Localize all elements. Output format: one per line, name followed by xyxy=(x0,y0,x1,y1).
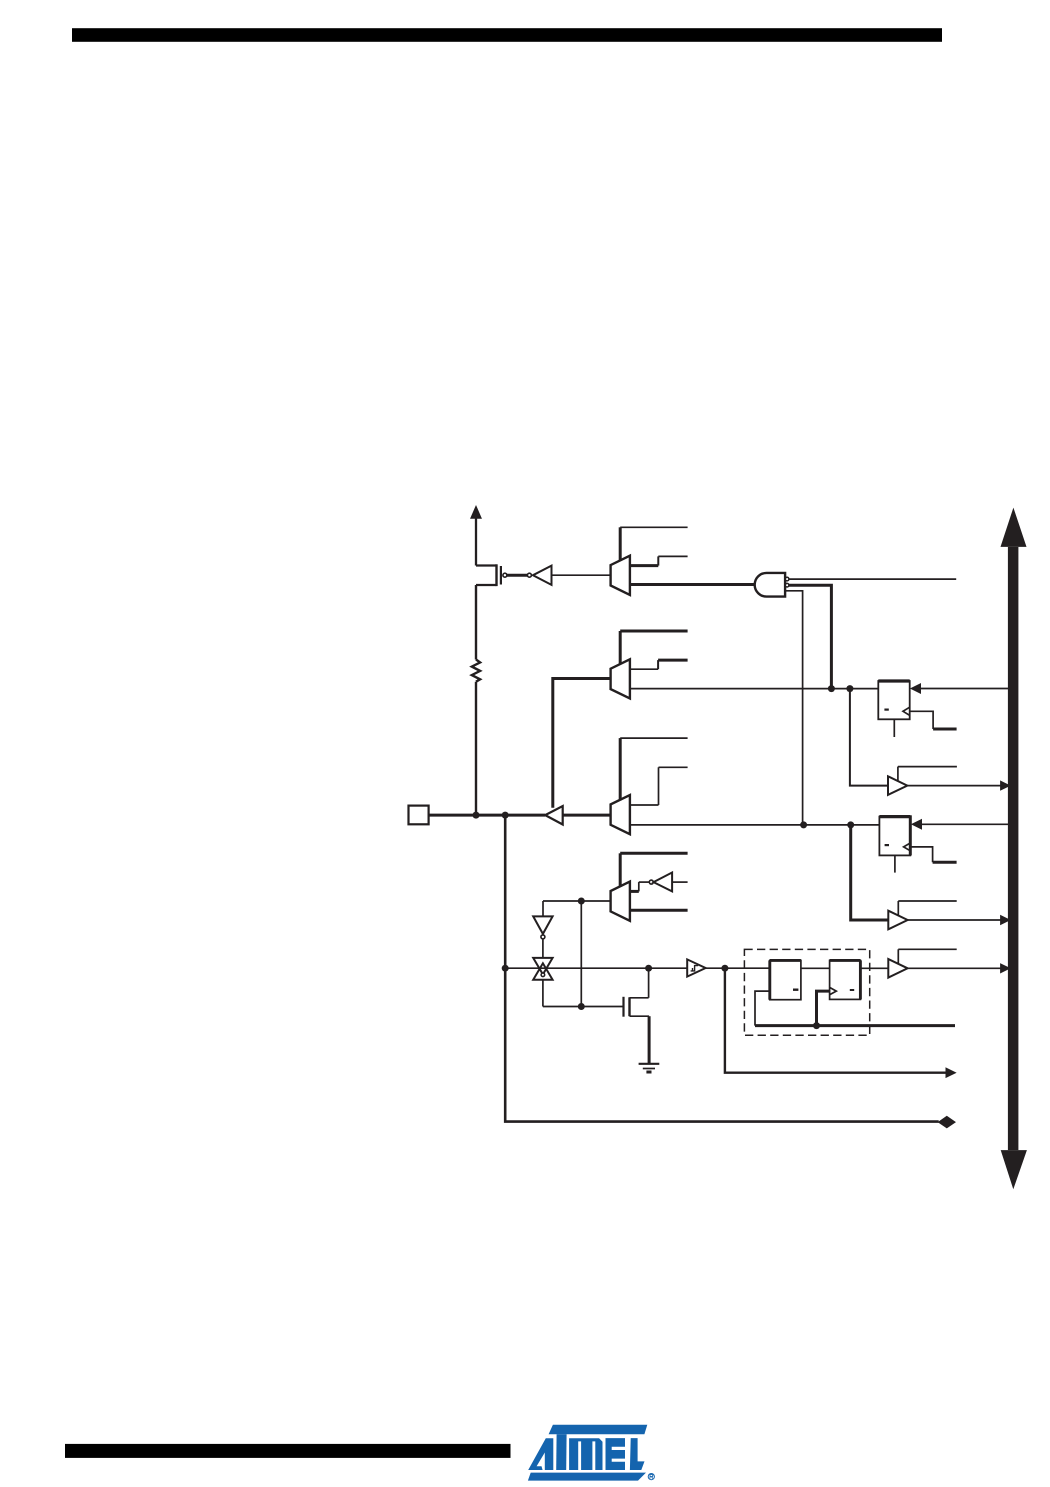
wire DIxn xyxy=(725,968,947,1072)
node pad/analog junction xyxy=(502,812,509,819)
FF2 D arrowhead xyxy=(912,820,922,829)
wire latch L1 to L2 xyxy=(801,967,830,969)
AIOxn diamond xyxy=(939,1116,956,1127)
logo letter L xyxy=(630,1438,645,1470)
logo letter A xyxy=(528,1438,553,1470)
flip-flop FF2 (PORTxn) xyxy=(879,815,910,872)
FF1 D arrowhead xyxy=(911,684,921,693)
wire mux4 input 1 xyxy=(630,882,649,891)
logo bottom bar xyxy=(528,1473,646,1481)
node mux4 output tap xyxy=(578,898,585,905)
schmitt trigger U6 xyxy=(687,959,705,976)
logo letter E xyxy=(606,1438,626,1470)
pad Pxn xyxy=(409,806,429,825)
wire PUD stub xyxy=(789,578,956,580)
mux3 select wire xyxy=(619,738,622,800)
buffer U8 (PORTxn read) xyxy=(888,901,1009,929)
wire FF1 D from bus xyxy=(920,688,1008,690)
logo letter T xyxy=(556,1434,566,1470)
wire analog line (pad to schmitt) xyxy=(505,967,687,969)
wire mux2 output (driver enable) xyxy=(553,679,611,808)
wire inverter U3 to gate xyxy=(542,939,544,958)
mux1 (pull-up enable mux) xyxy=(611,556,630,595)
wire mux3 select stub xyxy=(620,737,687,739)
wire clk I/O xyxy=(755,1024,955,1027)
transmission gate T1 xyxy=(533,958,552,980)
buffer U9 (PINxn read) xyxy=(888,949,1009,977)
node pad/pull-up junction xyxy=(473,812,480,819)
logo top bar xyxy=(549,1425,648,1434)
DIxn arrowhead xyxy=(946,1068,956,1077)
AND input bubble 2 xyxy=(785,583,789,587)
node PORTxn line taps xyxy=(800,821,807,828)
wire AND input 2 to DDxn line xyxy=(789,585,831,688)
wire VCC to resistor xyxy=(475,585,477,660)
AND gate G1 (pull-up logic) xyxy=(755,573,785,597)
latch L2 xyxy=(830,960,861,999)
mux2 select wire xyxy=(619,631,622,665)
header rule xyxy=(72,28,942,42)
latch L1 xyxy=(770,960,801,999)
AND input bubble 1 xyxy=(785,577,789,581)
DATA BUS xyxy=(1001,508,1027,1190)
wire mux2 input 1 (step) xyxy=(630,660,688,669)
node clk junction xyxy=(813,1022,820,1029)
wire mux4 output to inverter U3 xyxy=(542,901,544,916)
wire PMOS gate to inverter xyxy=(507,574,528,577)
wire schmitt to synchronizer xyxy=(706,967,770,969)
wire AIOxn xyxy=(505,815,939,1122)
inverter U4 (input enable) xyxy=(649,873,687,892)
inverter U3 (clamp control) xyxy=(533,916,552,939)
wire pad to driver xyxy=(429,814,546,817)
logo R mark xyxy=(648,1474,654,1480)
wire AND input 3 to PORTxn line xyxy=(785,591,803,825)
wire latch L2 to PIN buffer xyxy=(860,967,888,969)
wire FF2 D from bus xyxy=(921,823,1008,825)
VCC arrow xyxy=(471,506,481,565)
mux3 (PORTxn override mux) xyxy=(611,795,630,834)
ground xyxy=(639,1064,660,1072)
buffer U7 (DDxn read) xyxy=(888,767,1010,795)
wire mux3 input 2 (PORTxn Q line) xyxy=(630,824,880,826)
flip-flop FF1 (DDxn) xyxy=(878,681,909,737)
wire latch L2 clock xyxy=(817,991,830,1026)
mux2 (DDxn override mux) xyxy=(611,659,630,698)
wire mux1 select stub xyxy=(620,526,687,528)
wire resistor to pad line xyxy=(475,682,477,815)
wire mux1 input 1 (step) xyxy=(630,556,688,565)
wire PORTxn tap to buffer U8 xyxy=(851,825,889,920)
wire latch L1 enable xyxy=(755,991,770,1026)
wire mux3 output to driver xyxy=(563,814,611,817)
wire NMOS gate xyxy=(543,1006,624,1008)
footer rule xyxy=(65,1444,511,1458)
wire TG to NMOS gate line xyxy=(542,980,544,1007)
pull-up PMOS Q1 xyxy=(476,564,507,586)
node gate junction xyxy=(578,1003,585,1010)
wire FF1 clock (WDx) xyxy=(910,711,933,729)
wire FF2 clock (WRx) xyxy=(910,847,932,862)
synchronizer dashed box xyxy=(744,949,869,1035)
wire mux4 tap down xyxy=(580,901,582,1007)
wire mux4 input 2 (SLEEP stub) xyxy=(630,909,688,912)
wire mux2 select stub xyxy=(620,630,687,633)
wire DDxn tap to buffer U7 xyxy=(850,689,888,786)
wire mux4 select stub xyxy=(620,852,687,855)
mux1 select wire xyxy=(619,527,622,561)
wire mux1 input 2 (from AND gate) xyxy=(630,583,755,586)
wire mux3 input 1 (step) xyxy=(630,767,688,805)
mux4 (digital input enable mux) xyxy=(611,882,630,921)
resistor R1 (pull-up) xyxy=(472,660,480,682)
node DIxn tap xyxy=(721,965,728,972)
logo letter M xyxy=(569,1438,602,1470)
mux4 select wire xyxy=(619,853,622,887)
wire inverter to mux1 xyxy=(552,574,611,576)
inverter U1 (pull-up gate driver) xyxy=(527,566,551,585)
output driver U5 xyxy=(545,806,563,825)
node NMOS drain tap xyxy=(645,965,652,972)
node analog tap xyxy=(502,965,509,972)
node DDxn line taps xyxy=(828,685,835,692)
NMOS Q2 (clamp) xyxy=(624,968,650,1064)
wire mux2 input 2 (DDxn Q line) xyxy=(630,688,878,690)
wire mux4 output xyxy=(543,900,611,902)
Atmel logo xyxy=(528,1425,655,1481)
